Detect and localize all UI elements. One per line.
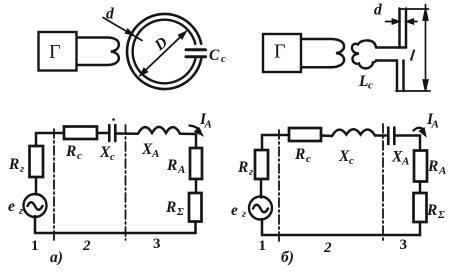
dash-dot divider 2 (b) — [382, 124, 384, 242]
dash-dot divider 1 (b) — [278, 130, 280, 242]
svg-text:R: R — [237, 159, 248, 176]
coupling coil Lc — [352, 40, 376, 68]
top extension line — [399, 8, 429, 10]
svg-text:A: A — [438, 165, 446, 177]
label Rg (b) — [237, 159, 253, 178]
svg-text:A: A — [431, 119, 439, 131]
resistor Rg (a) — [30, 146, 44, 177]
wire top-left (a) — [36, 132, 64, 135]
inductor Xc (b) — [332, 129, 375, 136]
wire XA to corner (b) — [395, 134, 420, 137]
wire RA to RS (b) — [419, 182, 422, 194]
resistor RA (a) — [190, 148, 202, 179]
generator box Г (right figure) — [263, 34, 301, 72]
svg-text:2: 2 — [323, 240, 332, 256]
svg-text:с: с — [349, 155, 354, 167]
wire source to Rg (a) — [35, 177, 38, 195]
svg-text:1: 1 — [31, 238, 39, 254]
label RS (a) — [165, 199, 184, 218]
svg-text:c: c — [221, 53, 226, 65]
dimension arrow d (left figure) — [103, 18, 142, 41]
svg-text:R: R — [8, 156, 19, 173]
svg-text:A: A — [401, 156, 409, 168]
dash-dot divider 2 (a) — [125, 125, 127, 240]
resistor Rg (b) — [255, 150, 268, 179]
bottom wire (a) — [35, 232, 196, 235]
wire Rc to Xc (b) — [321, 134, 332, 137]
length dimension line l — [423, 5, 428, 91]
svg-text:б): б) — [281, 249, 294, 266]
wire down to bottom (a) — [194, 222, 197, 234]
generator box Г (left figure) — [39, 32, 77, 71]
resistor RA (b) — [414, 151, 427, 182]
capacitor Xc (a) — [109, 125, 115, 141]
svg-text:A: A — [151, 148, 159, 160]
svg-text:3: 3 — [153, 236, 161, 252]
svg-text:г: г — [242, 208, 246, 220]
svg-text:e: e — [8, 198, 15, 215]
left wire lower (b) — [261, 219, 264, 235]
label Cc — [209, 47, 226, 65]
wire Rg to top (a) — [35, 133, 38, 146]
svg-text:R: R — [166, 157, 177, 174]
svg-text:c: c — [368, 80, 373, 92]
wire Rg to top (b) — [261, 135, 264, 150]
svg-text:г: г — [20, 163, 24, 175]
arrow IA (b) — [414, 128, 424, 131]
arrow IA (a) — [190, 126, 200, 131]
svg-text:с: с — [110, 151, 115, 163]
wire right down (b) — [419, 136, 422, 151]
svg-text:г: г — [249, 166, 253, 178]
antenna rod lower — [397, 61, 404, 92]
svg-text:R: R — [426, 202, 437, 219]
svg-text:г: г — [19, 205, 23, 217]
svg-text:Σ: Σ — [176, 206, 184, 218]
feeder cable (left figure) — [77, 38, 119, 66]
wire right down (a) — [195, 134, 198, 148]
bottom extension line — [396, 90, 430, 92]
left wire lower (a) — [34, 216, 37, 233]
label Rc (a) text — [65, 141, 409, 168]
bottom wire (b) — [262, 234, 420, 237]
label eg (b) — [231, 202, 246, 220]
svg-text:C: C — [209, 47, 220, 64]
svg-text:а): а) — [50, 249, 63, 266]
antenna rod upper — [400, 9, 407, 48]
wire Rc to Xc (a) — [97, 132, 108, 135]
svg-text:R: R — [165, 199, 176, 216]
svg-text:с: с — [77, 150, 82, 162]
wire XA to corner (a) — [180, 132, 196, 135]
resistor Rc (a) — [64, 127, 97, 140]
dash-dot divider 1 (a) — [53, 129, 55, 240]
stray ink dot — [112, 118, 115, 121]
resistor RS (a) — [189, 193, 202, 222]
svg-text:R: R — [427, 158, 438, 175]
wire RA to RS (a) — [195, 179, 198, 193]
diameter dimension d (right figure) — [386, 19, 418, 24]
svg-text:Г: Г — [274, 41, 286, 63]
source eg (b) — [249, 197, 272, 220]
loop antenna ring inner — [133, 20, 196, 84]
svg-text:L: L — [358, 73, 368, 90]
wire down to bottom (b) — [419, 222, 422, 235]
label RS (b) — [426, 202, 445, 221]
resistor RS (b) — [414, 193, 427, 222]
svg-text:R: R — [294, 146, 305, 163]
svg-text:e: e — [231, 202, 238, 219]
label Lc — [358, 73, 373, 92]
svg-text:с: с — [306, 153, 311, 165]
source eg (a) — [24, 194, 47, 217]
label 1 (a) — [31, 236, 161, 266]
wire Xc to XA (b) — [375, 134, 388, 137]
dimension arrow D — [140, 32, 186, 76]
feeder cable (right figure) — [301, 39, 344, 67]
wire top-left (b) — [262, 134, 289, 137]
svg-text:R: R — [65, 143, 76, 160]
wire Xc to XA (a) — [116, 132, 139, 135]
svg-text:d: d — [106, 6, 114, 23]
resistor Rc (b) — [289, 128, 321, 141]
svg-text:A: A — [204, 119, 212, 131]
label eg (a) — [8, 198, 23, 217]
capacitor XA (b) — [388, 128, 394, 145]
svg-text:2: 2 — [82, 238, 91, 254]
label RA (b) — [427, 158, 446, 177]
capacitor Cc plates — [186, 50, 206, 57]
label 1 (b) — [259, 237, 408, 266]
inductor XA (a) — [138, 127, 180, 134]
label Rg (a) — [8, 156, 24, 175]
svg-text:1: 1 — [259, 238, 267, 254]
svg-text:Σ: Σ — [437, 209, 445, 221]
feed channel wires — [376, 48, 406, 61]
wire source to Rg (b) — [260, 179, 263, 198]
svg-text:Г: Г — [49, 41, 61, 63]
svg-text:3: 3 — [400, 237, 408, 253]
label RA (a) — [166, 157, 185, 176]
svg-text:A: A — [177, 164, 185, 176]
loop antenna ring outer — [127, 14, 201, 89]
svg-text:d: d — [374, 2, 382, 19]
